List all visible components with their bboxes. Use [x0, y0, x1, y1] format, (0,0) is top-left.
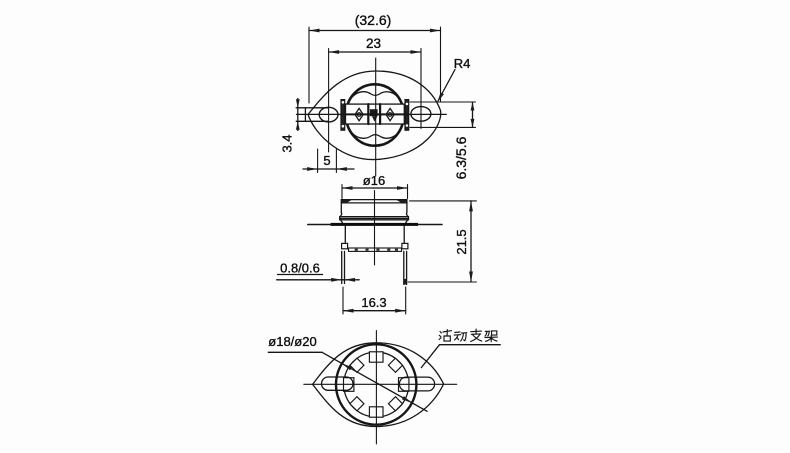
body outline (bottom view) [313, 343, 444, 427]
bimetal disc bottom wave [350, 131, 400, 139]
horizontal centerline top view [297, 113, 447, 115]
vertical centerline top view [375, 58, 377, 176]
架 [485, 331, 497, 342]
left ear slot lines [296, 107, 328, 109]
svg-text:ø18/ø20: ø18/ø20 [268, 334, 316, 349]
svg-text:(32.6): (32.6) [355, 12, 392, 28]
cap top [341, 199, 407, 201]
svg-text:5: 5 [323, 153, 330, 168]
8 tabs around base [344, 352, 409, 417]
svg-text:0.8/0.6: 0.8/0.6 [280, 261, 320, 276]
inner base circle [344, 352, 409, 417]
cap circle o16 (top view) [346, 84, 404, 145]
bimetal disc top wave [350, 92, 400, 100]
svg-text:ø16: ø16 [363, 173, 385, 188]
动 [454, 332, 467, 341]
flange band [331, 223, 418, 226]
dimension 16.3 [343, 310, 406, 312]
svg-text:6.3/5.6: 6.3/5.6 [453, 136, 469, 179]
dimension o16 [342, 187, 408, 189]
svg-text:21.5: 21.5 [454, 229, 469, 254]
svg-text:23: 23 [366, 36, 381, 51]
cap crimp lip [340, 213, 342, 218]
right terminal pin [403, 251, 405, 284]
dimension (32.6) [309, 30, 441, 32]
right end plate [405, 100, 409, 131]
leader R4 [438, 70, 455, 102]
svg-text:3.4: 3.4 [280, 134, 295, 152]
label leader (movable bracket) [440, 344, 501, 346]
right ear hole circle [411, 107, 431, 122]
base bottom band [349, 248, 402, 251]
活 [439, 330, 451, 341]
dimension 23 [329, 51, 421, 53]
divider line left [367, 104, 369, 124]
right ear slot [399, 377, 434, 391]
bracket plate (side view, thin wide line) [308, 224, 442, 226]
dimension 6.3/5.6 [472, 102, 474, 127]
left ear slot [322, 377, 354, 390]
side view centerline [374, 191, 376, 266]
dimension 21.5 [470, 201, 472, 282]
dimension line 0.8/0.6 arrows at pin [277, 279, 360, 281]
body sides below flange [344, 226, 346, 244]
right clip tab [402, 243, 408, 248]
dimension 3.4 [297, 99, 299, 131]
bottom view horizontal centerline [304, 383, 457, 385]
bracket strip rectangle [346, 104, 405, 124]
left ear hole circle [319, 107, 338, 122]
dimension 5 [303, 168, 354, 170]
divider line right [379, 104, 381, 124]
outer flange circle [336, 344, 416, 424]
center contact block [370, 109, 378, 116]
svg-text:R4: R4 [454, 56, 471, 71]
body outline (top view oval with pointed ears) [308, 71, 441, 160]
svg-text:16.3: 16.3 [361, 295, 386, 310]
cap sides [340, 200, 342, 213]
left end plate [341, 100, 345, 131]
bottom view vertical centerline [375, 331, 377, 445]
left terminal pin [341, 251, 343, 283]
right terminal diamond [386, 108, 394, 120]
left clip tab [342, 243, 348, 248]
chinese label huo dong zhi jia (movable bracket) drawn as strokes [439, 329, 497, 342]
支 [471, 329, 482, 341]
left terminal diamond [355, 108, 363, 120]
